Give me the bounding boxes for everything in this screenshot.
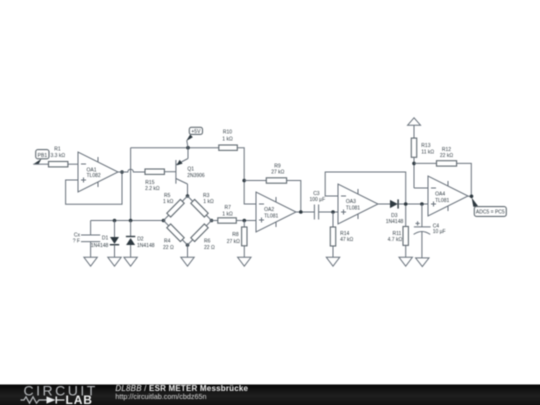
- svg-text:1N4148: 1N4148: [91, 243, 109, 249]
- svg-text:R13: R13: [421, 143, 430, 149]
- node C4 junction: [420, 202, 424, 206]
- svg-text:R12: R12: [442, 147, 451, 153]
- wire OA3 output to D3: [378, 203, 390, 205]
- svg-text:R8: R8: [232, 232, 239, 238]
- wire R15 to Q1 base: [164, 171, 176, 173]
- svg-text:D2: D2: [137, 236, 144, 242]
- svg-text:D1: D1: [102, 235, 109, 241]
- CircuitLab logo diode symbol: [44, 396, 65, 403]
- node D1 top junction: [113, 219, 117, 223]
- CircuitLab logo resistor zigzag: [21, 397, 44, 403]
- capacitor Cx ? F: [73, 221, 100, 258]
- svg-text:TL081: TL081: [264, 214, 278, 220]
- svg-text:OA4: OA4: [435, 191, 445, 197]
- wire bridge diamond arms: [164, 196, 212, 245]
- flag ADC5 = PC5 output: [472, 198, 507, 217]
- flag PB1: [33, 150, 49, 165]
- ground for C4: [416, 258, 429, 267]
- svg-text:22 Ω: 22 Ω: [163, 245, 174, 251]
- ground for R8: [238, 257, 251, 266]
- wire D3 cathode to OA4 non-inverting input: [399, 203, 429, 205]
- svg-text:R10: R10: [223, 129, 232, 135]
- node D3 cathode junction: [404, 202, 408, 206]
- op-amp OA2 TL081: [256, 192, 296, 232]
- resistor R7 1 kΩ: [218, 205, 237, 223]
- resistor R1 3.3 kΩ: [49, 147, 68, 167]
- node R14 junction: [331, 210, 335, 214]
- ground for R11: [399, 257, 412, 266]
- wire bridge bottom to ground: [187, 245, 189, 257]
- svg-text:? F: ? F: [73, 238, 80, 244]
- wire OA4 output: [468, 195, 473, 197]
- svg-text:R5: R5: [164, 193, 171, 199]
- wire R13 junction to OA4 inverting input: [414, 187, 428, 189]
- node bridge top vertex: [186, 194, 190, 198]
- wire vertical net from top rail down to lower rail: [130, 148, 132, 221]
- svg-text:R3: R3: [203, 193, 210, 199]
- svg-text:3.3 kΩ: 3.3 kΩ: [51, 153, 66, 159]
- svg-text:11 kΩ: 11 kΩ: [421, 150, 434, 156]
- node bridge right vertex: [210, 219, 214, 223]
- svg-text:R6: R6: [204, 239, 211, 245]
- resistor R10 1 kΩ: [219, 129, 238, 150]
- svg-text:C3: C3: [313, 191, 320, 197]
- wire lower rail to bridge left vertex: [91, 220, 164, 222]
- resistor R9 27 kΩ (OA2 feedback): [244, 164, 301, 212]
- svg-text:100 µF: 100 µF: [309, 197, 325, 203]
- svg-text:OA2: OA2: [264, 207, 274, 213]
- resistor R8 27 kΩ: [227, 221, 247, 258]
- wire OA1 feedback loop output to non-inverting input: [66, 172, 122, 204]
- ground for D2: [124, 257, 137, 266]
- op-amp OA4 TL081: [428, 176, 468, 216]
- svg-text:47 kΩ: 47 kΩ: [340, 237, 353, 243]
- op-amp OA1 TL082: [78, 152, 118, 192]
- transistor Q1 2N3906: [176, 148, 205, 196]
- svg-text:1N4148: 1N4148: [386, 219, 404, 225]
- svg-text:4.7 kΩ: 4.7 kΩ: [388, 237, 403, 243]
- node D2 top junction: [129, 219, 133, 223]
- capacitor C3 100 µF: [309, 191, 325, 220]
- svg-text:2N3906: 2N3906: [187, 173, 205, 179]
- svg-text:TL081: TL081: [346, 206, 360, 212]
- resistor R5 1 kΩ (bridge upper-left arm): [163, 193, 184, 217]
- node +5V junction on top rail: [186, 146, 190, 150]
- svg-text:http://circuitlab.com/cbdz65n: http://circuitlab.com/cbdz65n: [115, 392, 206, 401]
- diode D3 1N4148: [386, 199, 404, 225]
- ground for bridge: [181, 257, 194, 266]
- svg-text:22 kΩ: 22 kΩ: [440, 153, 453, 159]
- wire R7 to OA2 non-inverting input: [236, 220, 256, 222]
- svg-text:PB1: PB1: [38, 153, 48, 159]
- resistor R4 22 Ω (bridge lower-left arm): [163, 224, 184, 251]
- resistor R3 1 kΩ (bridge upper-right arm): [191, 193, 214, 217]
- wire top rail to R10: [131, 147, 219, 149]
- svg-text:22 Ω: 22 Ω: [204, 245, 215, 251]
- svg-text:OA3: OA3: [346, 199, 356, 205]
- node OA4 output junction: [470, 195, 474, 199]
- resistor R12 22 kΩ (OA4 feedback): [414, 147, 471, 196]
- capacitor C4 10 µF polarized: [414, 204, 446, 258]
- op-amp OA3 TL081: [338, 184, 378, 224]
- svg-text:TL081: TL081: [435, 198, 449, 204]
- svg-text:Q1: Q1: [187, 167, 194, 173]
- node R8 junction: [243, 219, 247, 223]
- node bridge left vertex: [162, 219, 166, 223]
- svg-text:R4: R4: [164, 239, 171, 245]
- wire PB1 to R1: [33, 163, 48, 165]
- svg-text:10 µF: 10 µF: [433, 229, 446, 235]
- resistor R6 22 Ω (bridge lower-right arm): [191, 224, 215, 251]
- svg-text:1 kΩ: 1 kΩ: [222, 136, 233, 142]
- wire OA3 feedback from diode cathode to inverting input: [325, 172, 406, 227]
- svg-text:27 kΩ: 27 kΩ: [227, 239, 240, 245]
- ground for D1: [108, 257, 121, 266]
- node R9 branch junction: [242, 179, 246, 183]
- wire bridge right vertex to R7: [212, 220, 218, 222]
- wire R10 to OA2 inverting input: [237, 148, 256, 204]
- resistor R13 11 kΩ: [411, 138, 434, 188]
- svg-text:2.2 kΩ: 2.2 kΩ: [145, 186, 160, 192]
- wire OA2 output to C3: [296, 211, 314, 213]
- svg-text:R7: R7: [224, 205, 231, 211]
- node OA2 output junction: [299, 210, 303, 214]
- svg-text:R1: R1: [54, 147, 61, 153]
- wire C3 to OA3 non-inverting input: [319, 211, 338, 213]
- svg-text:+5V: +5V: [191, 129, 201, 135]
- svg-text:1 kΩ: 1 kΩ: [203, 199, 214, 205]
- wire R1 to OA1 inverting input: [68, 163, 78, 165]
- svg-text:TL082: TL082: [87, 173, 101, 179]
- diode D2 1N4148: [126, 221, 155, 258]
- resistor R15 2.2 kΩ: [145, 169, 164, 192]
- node R12 branch junction: [412, 162, 416, 166]
- resistor R14 47 kΩ: [330, 212, 353, 257]
- power supply VCC arrow: [408, 118, 421, 138]
- wire OA1 output with hop over vertical net: [118, 169, 145, 172]
- node OA1 output junction: [120, 170, 124, 174]
- svg-text:ADC5 = PC5: ADC5 = PC5: [476, 209, 505, 215]
- resistor R11 4.7 kΩ: [388, 227, 409, 258]
- ground for Cx: [84, 257, 97, 266]
- svg-text:27 kΩ: 27 kΩ: [271, 169, 284, 175]
- svg-text:1 kΩ: 1 kΩ: [222, 211, 233, 217]
- svg-text:LAB: LAB: [66, 393, 93, 405]
- diode D1 1N4148: [91, 221, 119, 258]
- svg-text:1 kΩ: 1 kΩ: [163, 199, 174, 205]
- svg-text:1N4148: 1N4148: [137, 243, 155, 249]
- flag +5V supply: [186, 127, 202, 147]
- node bridge bottom vertex: [186, 243, 190, 247]
- ground for R14: [326, 257, 339, 266]
